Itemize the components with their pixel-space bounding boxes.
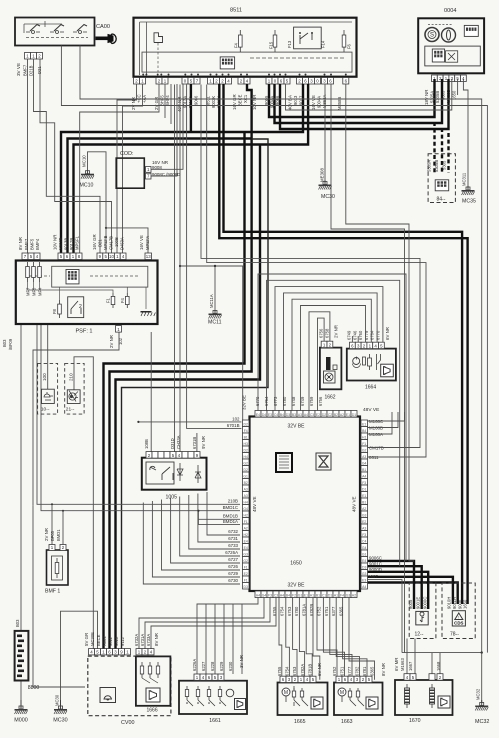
1670 pins <box>404 674 410 681</box>
svg-text:G3: G3 <box>362 572 367 576</box>
svg-text:A4: A4 <box>362 585 366 589</box>
wire CA00 pin2 jog to PSF1 pin9 <box>34 59 101 253</box>
1664 inner parts <box>363 357 366 365</box>
BMF1 inner fuse <box>52 556 63 580</box>
switch symbol 1 inside CA00 <box>26 31 40 34</box>
svg-text:BECE: BECE <box>238 94 243 106</box>
svg-text:108B: 108B <box>144 439 149 449</box>
svg-text:C4: C4 <box>362 539 366 543</box>
arc wire 4 <box>284 293 378 411</box>
fuse F15 in 8511 <box>274 30 276 52</box>
svg-text:78--: 78-- <box>450 632 459 638</box>
svg-text:MPSFA: MPSFA <box>145 236 150 250</box>
svg-text:MC11A: MC11A <box>209 294 214 308</box>
svg-text:9012B: 9012B <box>69 238 74 250</box>
BMF1 fuse holder <box>47 550 69 585</box>
svg-text:210B: 210B <box>228 499 238 504</box>
svg-text:F3: F3 <box>362 481 366 485</box>
svg-text:C3: C3 <box>310 413 314 417</box>
wire thick 78 extra feed b <box>367 583 458 605</box>
dashed box 12-- <box>409 583 436 639</box>
wire CA00 pin1 down to PSF1 <box>27 59 29 253</box>
svg-text:F4: F4 <box>340 594 344 598</box>
svg-text:2V NR: 2V NR <box>44 528 49 541</box>
8511 step bracket shape <box>154 33 163 43</box>
svg-text:MC10: MC10 <box>82 155 87 167</box>
svg-text:9001C: 9001C <box>369 562 382 567</box>
svg-text:F1: F1 <box>362 442 366 446</box>
PSF1 fuse F4 <box>126 293 128 308</box>
wires CV00 right pins from 1650 <box>139 598 264 650</box>
svg-text:D2: D2 <box>244 448 248 452</box>
1665 speaker <box>311 697 323 709</box>
svg-text:G1: G1 <box>298 594 303 598</box>
unit 1665 <box>278 683 328 716</box>
svg-text:8V NR: 8V NR <box>18 237 23 250</box>
svg-text:6779: 6779 <box>364 330 369 340</box>
CV00 right pins <box>136 649 142 655</box>
svg-text:D2: D2 <box>244 422 248 426</box>
svg-text:9005: 9005 <box>408 599 413 609</box>
svg-text:G4: G4 <box>262 594 267 598</box>
svg-text:D21: D21 <box>37 66 42 74</box>
svg-text:M858A: M858A <box>322 95 327 108</box>
svg-text:A3: A3 <box>298 413 302 417</box>
svg-text:BMF4: BMF4 <box>35 238 40 250</box>
svg-text:C3: C3 <box>274 594 278 598</box>
PSF1 relay <box>68 297 84 318</box>
svg-text:H2: H2 <box>244 513 248 517</box>
1664 inner circle <box>353 358 360 365</box>
svg-text:6730: 6730 <box>228 578 238 583</box>
nest wire 8 <box>143 503 240 585</box>
fuse box 8511 outline <box>134 18 357 77</box>
svg-text:CM17B: CM17B <box>369 446 384 451</box>
wire thick 1650 right 9000D to 12-- <box>367 572 429 609</box>
wire thick 0004 pin2 run left to 8511 G6 <box>275 79 443 123</box>
svg-text:9004A: 9004A <box>317 96 322 108</box>
78-- inner CDS box <box>452 611 465 626</box>
1650 left pin strip <box>243 420 250 427</box>
dashed box 100 <box>38 363 58 414</box>
svg-text:A2: A2 <box>362 507 366 511</box>
svg-text:9010H: 9010H <box>447 597 452 609</box>
svg-text:MF7: MF7 <box>26 287 31 296</box>
svg-text:PSF: 1: PSF: 1 <box>75 329 92 335</box>
svg-text:G4: G4 <box>362 461 367 465</box>
svg-text:6731A: 6731A <box>140 634 145 646</box>
1662 inner bottom symbol <box>324 371 336 383</box>
svg-text:6773: 6773 <box>273 396 278 406</box>
stub rail 41 <box>40 324 42 340</box>
svg-text:B03: B03 <box>2 339 7 347</box>
dashed box 210 <box>65 363 84 414</box>
svg-text:0004: 0004 <box>444 8 456 14</box>
svg-text:6749: 6749 <box>347 330 352 340</box>
svg-text:6754: 6754 <box>279 606 284 616</box>
svg-text:6754: 6754 <box>285 666 290 676</box>
sensor unit 1662 <box>320 348 342 390</box>
svg-text:9006C: 9006C <box>369 556 382 561</box>
svg-text:D3: D3 <box>244 585 248 589</box>
svg-text:9008: 9008 <box>152 165 162 170</box>
dashed box CV00 <box>88 656 171 716</box>
8511 inner vertical with junctions <box>145 22 147 75</box>
svg-text:9008C /9008D: 9008C /9008D <box>152 172 180 177</box>
wire 6701B frame riser <box>187 85 242 429</box>
8511 pin group G7 <box>297 78 303 85</box>
svg-text:COD:: COD: <box>120 151 133 157</box>
svg-text:5305: 5305 <box>442 160 447 170</box>
svg-text:8V NR: 8V NR <box>381 663 386 676</box>
svg-text:M166B: M166B <box>369 426 383 431</box>
fuse F4 in 8511 <box>239 30 241 52</box>
0004 pins <box>432 75 438 82</box>
M000 ground <box>20 700 22 709</box>
8511 connector grid symbol <box>220 57 234 69</box>
8511 pin group G4 <box>208 78 214 85</box>
svg-text:BF05: BF05 <box>50 530 55 541</box>
svg-text:1668: 1668 <box>436 661 441 671</box>
svg-text:G2: G2 <box>243 559 248 563</box>
svg-text:1650: 1650 <box>463 599 468 609</box>
svg-text:102: 102 <box>118 337 123 345</box>
wire thick 0004 pin3 run left to 8511 G6 <box>280 79 449 129</box>
PSF1 inner dashed <box>90 275 140 277</box>
wire 100 box feed <box>47 324 49 389</box>
svg-text:G3: G3 <box>346 594 351 598</box>
svg-text:9000D: 9000D <box>369 567 382 572</box>
svg-text:B2: B2 <box>334 413 338 417</box>
nest wire 4 <box>180 497 240 557</box>
svg-text:16V VE: 16V VE <box>311 95 316 110</box>
svg-text:D3: D3 <box>362 565 366 569</box>
svg-text:E1: E1 <box>346 413 350 417</box>
arc wire 3 <box>275 287 383 411</box>
svg-text:A1: A1 <box>334 594 338 598</box>
CV00 pins <box>89 649 95 655</box>
8511 bottom dash-dot bus <box>250 57 346 59</box>
wire thick dashed drop 5305 to 84-- <box>447 133 449 173</box>
0004 inner module box <box>425 46 481 66</box>
svg-text:B1: B1 <box>362 500 366 504</box>
svg-text:E4: E4 <box>244 539 248 543</box>
1670 speaker <box>438 696 450 708</box>
svg-text:16V GR: 16V GR <box>232 94 237 110</box>
nest wire 2 <box>198 494 240 543</box>
svg-text:MF5: MF5 <box>32 287 37 296</box>
svg-text:D4: D4 <box>262 413 266 417</box>
wire BMD1A <box>198 524 240 526</box>
svg-text:8511: 8511 <box>230 8 242 14</box>
wire 1005 pin feeds from top <box>150 332 152 455</box>
svg-text:B4: B4 <box>362 429 366 433</box>
svg-text:CA00: CA00 <box>96 24 110 30</box>
1661 pins <box>194 674 200 680</box>
svg-text:BMD1C: BMD1C <box>223 505 238 510</box>
svg-text:6228: 6228 <box>210 661 215 671</box>
svg-text:H1: H1 <box>362 435 366 439</box>
svg-text:B1: B1 <box>316 594 320 598</box>
horn unit 1666 <box>136 656 171 705</box>
svg-text:1667: 1667 <box>368 574 378 579</box>
svg-text:9001E: 9001E <box>416 597 421 609</box>
wire 8511 G8 pin6 frame 2 <box>331 84 405 653</box>
svg-text:B4: B4 <box>286 594 290 598</box>
wires 1661 feeds <box>197 598 258 675</box>
svg-text:F1: F1 <box>244 565 248 569</box>
svg-text:210: 210 <box>69 373 74 381</box>
1664 spare pin stubs <box>351 336 353 342</box>
wire CA00 pin3 jog to PSF1 pin10 <box>40 59 112 253</box>
svg-text:M166C: M166C <box>369 419 383 424</box>
wire BMF1 pin2 to BMD1C <box>62 511 64 545</box>
svg-text:G2: G2 <box>362 448 367 452</box>
svg-text:MC35: MC35 <box>462 199 476 205</box>
svg-text:A4: A4 <box>304 413 308 417</box>
svg-text:9V NR: 9V NR <box>201 436 206 449</box>
svg-text:48V VE: 48V VE <box>352 496 357 512</box>
svg-text:BMF 1: BMF 1 <box>45 589 60 595</box>
svg-text:1662: 1662 <box>324 395 335 401</box>
svg-text:B2: B2 <box>244 481 248 485</box>
svg-text:MC30: MC30 <box>53 718 67 724</box>
svg-text:F4: F4 <box>120 297 125 303</box>
svg-text:9013B: 9013B <box>64 238 69 250</box>
1650 bottom pin strip <box>255 591 261 598</box>
svg-text:5305B: 5305B <box>434 160 439 172</box>
wire 8511 G8 pin3 big frame to 12 area <box>346 84 414 561</box>
wire PSF1 to 8800 B03 rail <box>20 324 22 631</box>
svg-text:5305B: 5305B <box>435 91 440 103</box>
svg-text:6780: 6780 <box>282 396 287 406</box>
wire 8511 G2a elbow to MPSFL <box>80 84 159 253</box>
wire thick 0004 pin1 run left to 8511 G6 <box>269 79 435 117</box>
1664 pins <box>350 342 356 348</box>
svg-text:3V VE: 3V VE <box>16 63 21 76</box>
svg-text:6777: 6777 <box>347 666 352 676</box>
switch symbol 2 inside CA00 <box>50 31 64 34</box>
svg-text:10--: 10-- <box>41 407 50 413</box>
wire thick dashed drop 5305B to 84-- <box>441 128 443 173</box>
svg-text:6727: 6727 <box>228 557 238 562</box>
svg-text:3V NR: 3V NR <box>239 655 244 668</box>
svg-text:1665: 1665 <box>294 719 306 725</box>
wire MC30 bottom riser <box>61 611 98 708</box>
svg-text:9002K: 9002K <box>211 96 216 108</box>
svg-text:9013: 9013 <box>293 95 298 105</box>
wires right of 1650 M166 <box>368 412 405 421</box>
arc wire 6 <box>301 306 366 411</box>
svg-text:C1: C1 <box>322 594 326 598</box>
svg-text:E3: E3 <box>362 578 366 582</box>
1666 inner resistors <box>141 662 143 678</box>
svg-text:2: 2 <box>79 304 82 310</box>
svg-text:48V VE: 48V VE <box>363 407 379 413</box>
wire 0004 pin6 down <box>457 79 459 95</box>
svg-text:B4: B4 <box>280 413 284 417</box>
svg-text:M166A: M166A <box>369 432 383 437</box>
svg-text:2V NR: 2V NR <box>334 325 339 338</box>
8511 pin group G3 <box>182 78 188 85</box>
svg-text:1667: 1667 <box>408 661 413 671</box>
svg-text:6731B: 6731B <box>192 437 197 449</box>
svg-text:6780: 6780 <box>294 606 299 616</box>
wire CV00 5VGR feed <box>74 357 93 649</box>
svg-text:MPSFB: MPSFB <box>103 235 108 250</box>
junction dots row in 8511 <box>142 74 144 76</box>
nest wire 1 <box>207 492 240 535</box>
PSF1 bottom pin 102 <box>116 326 122 333</box>
svg-text:M: M <box>340 690 344 696</box>
svg-text:MC10: MC10 <box>80 183 94 189</box>
svg-text:5305A: 5305A <box>427 160 432 172</box>
COD pins right <box>146 167 152 173</box>
wire thick vertical to CV00 b from G5 straight <box>110 84 252 649</box>
svg-text:MC311: MC311 <box>462 172 467 186</box>
svg-text:H4: H4 <box>256 594 260 598</box>
wire CA00 box to right edge top <box>80 46 482 653</box>
svg-text:9112: 9112 <box>120 636 125 646</box>
1662 pins <box>321 341 327 347</box>
svg-text:6764: 6764 <box>264 396 269 406</box>
svg-text:6781A: 6781A <box>302 604 307 616</box>
svg-text:9066: 9066 <box>194 95 199 105</box>
wire thick G7b feed elbow <box>260 84 308 145</box>
svg-text:CH33A: CH33A <box>176 435 181 449</box>
wire thick dashed drop 5305A to 84-- <box>433 122 435 173</box>
nest wire 7 <box>152 501 240 577</box>
svg-text:MC11: MC11 <box>208 320 222 326</box>
svg-text:32V BE: 32V BE <box>242 395 247 410</box>
svg-text:A3: A3 <box>244 494 248 498</box>
8511 dashed link <box>157 43 159 74</box>
svg-text:84--: 84-- <box>437 197 446 203</box>
wire COD right pin7 up <box>151 84 177 176</box>
0004 circle symbol S <box>425 28 439 42</box>
PSF1 internal ground <box>141 311 152 313</box>
wire thick 8511-G3 to junction <box>190 84 192 132</box>
svg-text:E2: E2 <box>244 572 248 576</box>
wires 1650 bottom to 1665 <box>279 598 282 680</box>
svg-text:H2: H2 <box>244 533 248 537</box>
84-- connector grid <box>435 180 449 191</box>
svg-text:6782: 6782 <box>355 666 360 676</box>
svg-text:A4: A4 <box>362 474 366 478</box>
svg-text:6755: 6755 <box>277 666 282 676</box>
svg-text:6365: 6365 <box>370 666 375 676</box>
1663 pins <box>336 676 342 682</box>
svg-text:100B: 100B <box>114 237 119 247</box>
switch symbol 3 inside CA00 <box>73 31 87 34</box>
wire 102 into strip <box>138 421 241 423</box>
svg-text:E4: E4 <box>256 413 260 417</box>
wire thick H2 to PSF1 pin 5b <box>68 139 252 254</box>
svg-text:F1: F1 <box>106 297 111 303</box>
0004 connector grid <box>464 25 478 36</box>
svg-text:1666: 1666 <box>147 708 158 714</box>
connector pins under CA00 <box>25 53 31 60</box>
wire PSF1 bottom 102 to left rail <box>33 332 119 505</box>
svg-text:D3: D3 <box>286 413 290 417</box>
svg-text:E1: E1 <box>362 422 366 426</box>
svg-text:6751: 6751 <box>340 666 345 676</box>
svg-text:BMF7: BMF7 <box>24 238 29 250</box>
fuse F6 in 8511 <box>343 30 345 52</box>
svg-text:1661: 1661 <box>209 718 221 724</box>
wire MPSFA elbow to MC10 line <box>106 228 148 253</box>
svg-text:5V GR: 5V GR <box>84 633 89 646</box>
svg-text:BHF5: BHF5 <box>160 95 165 106</box>
8511 pin group G6 <box>266 78 272 85</box>
wire thick 1650 right 9006C to 12-- <box>367 561 415 609</box>
1662 inner level sensor <box>326 357 331 370</box>
8511 pin group G1 <box>134 78 140 85</box>
svg-text:E3: E3 <box>268 413 272 417</box>
wire 8800 bottom to M000 <box>20 681 22 709</box>
PSF1 pins G3 <box>97 253 103 260</box>
svg-text:2V NR: 2V NR <box>109 335 114 348</box>
svg-text:C2: C2 <box>328 413 332 417</box>
svg-text:E4: E4 <box>244 546 248 550</box>
wire BMD1C <box>41 340 240 511</box>
svg-text:F3: F3 <box>362 533 366 537</box>
210 inner symbol box <box>67 390 80 404</box>
svg-text:MC30: MC30 <box>55 694 60 706</box>
svg-text:A3: A3 <box>362 455 366 459</box>
wire thick 8511-G4b right loop to 78-- <box>219 84 467 604</box>
wire thick 1650 right 9001C to 12-- <box>367 566 422 609</box>
svg-text:6782B: 6782B <box>309 604 314 616</box>
wire BMF1 pin1 to 210B <box>51 504 53 545</box>
svg-text:G3: G3 <box>362 513 367 517</box>
1005 pins <box>146 452 152 459</box>
PSF1 fuse F8 <box>59 300 61 318</box>
0004 dash top link <box>428 24 452 26</box>
svg-text:/BF09: /BF09 <box>8 338 13 350</box>
svg-text:A2: A2 <box>244 526 248 530</box>
ECU box 1650 <box>250 417 361 592</box>
svg-text:D21: D21 <box>98 239 103 247</box>
svg-text:MC30: MC30 <box>321 194 335 200</box>
1650 top pin strip <box>255 411 261 418</box>
svg-text:BMD1B: BMD1B <box>223 514 238 519</box>
svg-text:C4: C4 <box>274 413 278 417</box>
PSF1 internal wires <box>28 282 114 293</box>
wire 210B from left to 1650 <box>37 340 240 504</box>
arc wire 1 <box>258 274 406 561</box>
8511 pin group G8 <box>322 78 328 85</box>
svg-text:8611: 8611 <box>369 455 379 460</box>
siren unit 1664 <box>347 349 396 381</box>
1664 speaker <box>381 364 394 377</box>
svg-text:CM17B: CM17B <box>109 236 114 250</box>
svg-text:32V BE: 32V BE <box>288 424 306 430</box>
wire CA00 box to right edge 2 <box>61 46 487 653</box>
wire thick G7a feed elbow <box>245 84 304 132</box>
wire thick vertical to CV00 c <box>116 145 261 650</box>
svg-text:6756: 6756 <box>318 396 323 406</box>
1663 inner parts <box>338 688 346 696</box>
relay F14 box in 8511 <box>294 27 322 49</box>
unit 1670 <box>395 680 453 715</box>
svg-text:102: 102 <box>232 417 240 422</box>
unit 1663 <box>334 683 383 716</box>
svg-text:G1: G1 <box>243 474 248 478</box>
PSF1 fuse F1 <box>112 293 114 308</box>
svg-text:1670: 1670 <box>409 718 421 724</box>
svg-text:G1: G1 <box>362 552 367 556</box>
